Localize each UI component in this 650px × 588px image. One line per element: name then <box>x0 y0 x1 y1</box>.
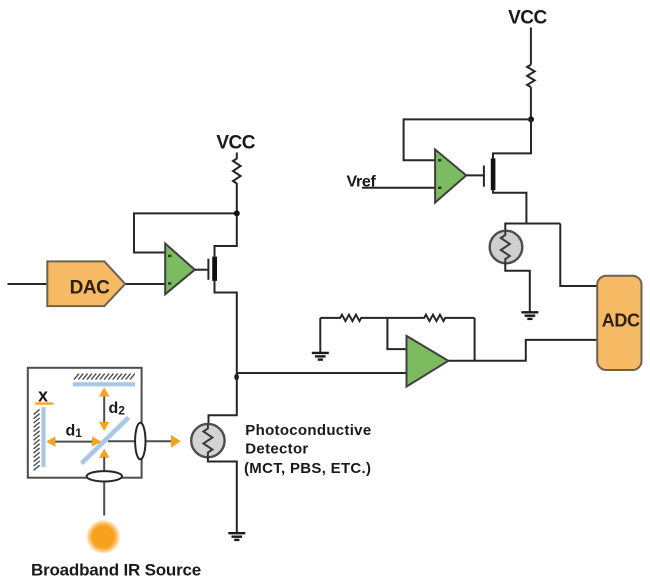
wire DAC input <box>8 283 48 285</box>
wire Q1 source to detector node <box>215 281 237 373</box>
wire Q1 drain to node A <box>215 213 237 257</box>
wire detector node down to detector <box>209 373 237 425</box>
beam from beamsplitter to output lens <box>108 440 135 442</box>
transistor Q2 <box>484 158 496 190</box>
svg-text:Broadband IR Source: Broadband IR Source <box>31 561 201 580</box>
svg-text:(MCT, PBS, ETC.): (MCT, PBS, ETC.) <box>244 460 371 477</box>
ADC A1 <box>597 276 641 370</box>
svg-text:DAC: DAC <box>70 278 110 299</box>
fixed mirror (top) <box>73 382 135 386</box>
op-amp U1 <box>165 244 195 295</box>
wire R2 left leg to ground <box>319 318 321 352</box>
wire PR2 node horizontal <box>505 224 560 232</box>
beam d1 <box>46 436 101 446</box>
resistor R1 pull-up <box>233 153 241 187</box>
wire R1 to node A <box>236 186 238 213</box>
fixed mirror hatching (top) <box>74 374 135 380</box>
wire U3 output to ADC <box>448 340 597 361</box>
interferometer box <box>28 368 142 478</box>
svg-text:VCC: VCC <box>216 132 255 153</box>
collimating lens <box>87 471 122 481</box>
wire R2 to U3 inverting input <box>387 318 406 349</box>
output lens <box>135 423 145 460</box>
transistor Q1 <box>208 257 217 281</box>
wire DAC output to op-amp U1 <box>125 283 165 285</box>
photoresistor PR2 <box>490 231 523 264</box>
wire U1 output to Q1 gate <box>195 269 209 271</box>
moving mirror (left) <box>41 407 45 467</box>
beam arrow into detector <box>146 435 181 448</box>
node B junction <box>528 116 534 122</box>
wire U2 output to Q2 gate <box>466 174 484 176</box>
svg-text:ADC: ADC <box>602 311 640 331</box>
wire PR1 to ground <box>208 457 237 532</box>
wire Q2 drain to node B <box>493 119 531 158</box>
ground (below detector) <box>228 533 245 540</box>
resistor R2 <box>320 315 387 321</box>
resistor R3 feedback <box>387 315 474 321</box>
moving mirror hatching (left) <box>34 409 40 470</box>
x travel underline <box>35 402 53 404</box>
wire Vref to U2 <box>362 187 435 189</box>
node A junction <box>234 210 240 216</box>
op-amp U2 <box>435 150 466 203</box>
wire detector node to op-amp U3 input <box>237 372 407 374</box>
wire to ADC top input <box>560 224 597 287</box>
Photoconductive Detector label <box>244 422 371 477</box>
node junction at detector branch <box>234 374 239 381</box>
svg-text:VCC: VCC <box>508 7 547 28</box>
svg-text:d1: d1 <box>66 423 83 441</box>
photoconductive detector PR1 <box>191 424 224 457</box>
source beam arrow below beamsplitter <box>99 449 109 458</box>
ground (PR2) <box>521 312 538 319</box>
wire feedback U1 <box>134 213 237 252</box>
wire feedback U2 <box>404 119 531 160</box>
wire R4 to node B <box>530 87 532 119</box>
beamsplitter <box>82 418 129 464</box>
resistor R4 <box>527 65 535 87</box>
wire VCC to R4 <box>530 28 532 65</box>
op-amp U3 <box>407 336 449 387</box>
svg-text:d2: d2 <box>109 400 126 418</box>
IR source glow <box>86 519 121 554</box>
source beam vertical <box>103 457 105 516</box>
wire Q2 source to PR2 node <box>493 190 526 223</box>
DAC D1 <box>47 261 125 306</box>
beam d2 <box>99 387 109 431</box>
svg-text:Detector: Detector <box>245 441 308 458</box>
wire R3 to U3 output <box>474 318 476 361</box>
ground (R2 leg) <box>312 353 329 360</box>
wire PR2 to ground <box>505 263 530 312</box>
svg-text:Photoconductive: Photoconductive <box>245 422 371 439</box>
